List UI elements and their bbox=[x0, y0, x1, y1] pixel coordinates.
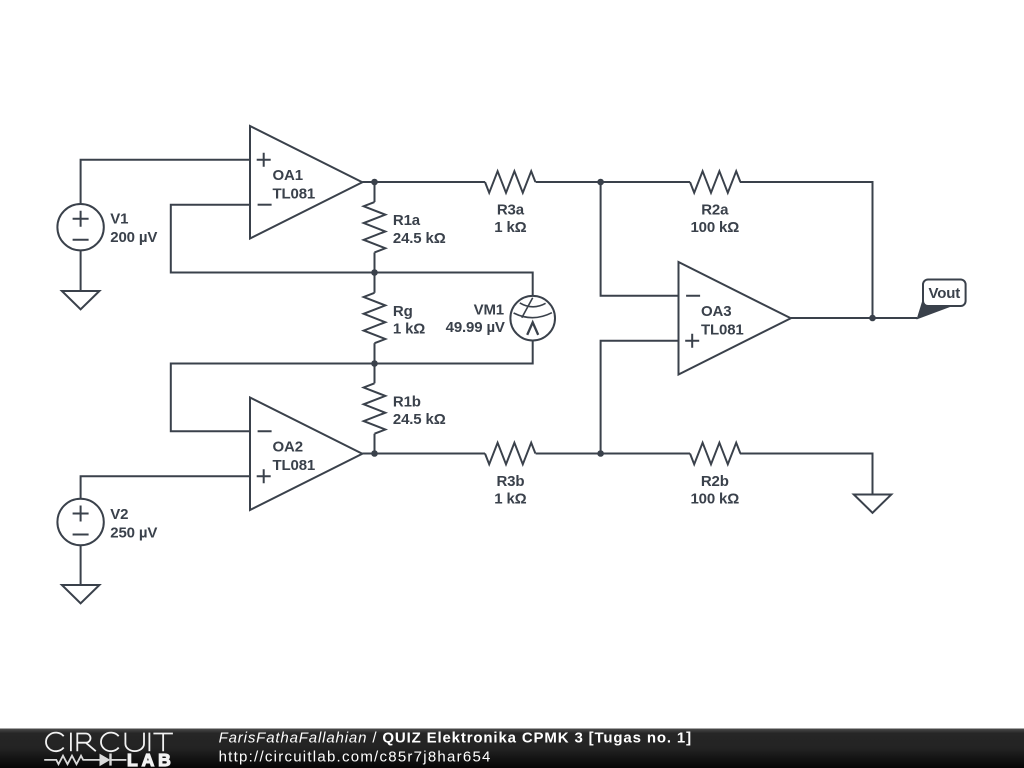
resistor R1a zigzag bbox=[364, 202, 386, 252]
wire node B to OA3 - input bbox=[601, 182, 679, 296]
svg-text:TL081: TL081 bbox=[273, 457, 316, 474]
svg-text:1 kΩ: 1 kΩ bbox=[393, 321, 425, 338]
svg-text:OA3: OA3 bbox=[701, 303, 731, 320]
wire Rg to node C bbox=[374, 343, 376, 383]
wire V1 bottom to ground bbox=[80, 250, 82, 291]
svg-text:1 kΩ: 1 kΩ bbox=[494, 219, 526, 236]
voltmeter VM1 bbox=[510, 296, 555, 341]
wire OA2 - feedback to node C and VM1 bottom bbox=[171, 341, 533, 432]
svg-text:LAB: LAB bbox=[127, 750, 175, 768]
junction dots bbox=[371, 179, 876, 457]
resistor R3a zigzag bbox=[485, 171, 535, 193]
wire OA2 output row bbox=[362, 453, 485, 455]
node OA1 out bbox=[371, 179, 378, 186]
svg-text:FarisFathaFallahian / QUIZ Ele: FarisFathaFallahian / QUIZ Elektronika C… bbox=[219, 729, 692, 746]
Vout flag bbox=[917, 292, 951, 320]
svg-text:OA2: OA2 bbox=[273, 439, 303, 456]
svg-text:VM1: VM1 bbox=[474, 302, 504, 319]
node C (Rg/R1b) bbox=[371, 360, 378, 367]
node OA2 out bbox=[371, 450, 378, 457]
wire R2a to right column down to OA3 output bbox=[740, 182, 873, 318]
CircuitLab logo: diode triangle bbox=[100, 754, 111, 767]
svg-text:200 µV: 200 µV bbox=[110, 229, 157, 246]
footer bar bbox=[0, 729, 1024, 768]
wire OA1 - feedback to node A and VM1 top bbox=[171, 205, 533, 296]
resistor R2a zigzag bbox=[690, 171, 740, 193]
node B (R3a/R2a) bbox=[597, 179, 604, 186]
svg-text:http://circuitlab.com/c85r7j8h: http://circuitlab.com/c85r7j8har654 bbox=[219, 748, 492, 765]
svg-text:OA1: OA1 bbox=[273, 167, 303, 184]
node D (R3b/R2b) bbox=[597, 450, 604, 457]
resistor Rg zigzag bbox=[364, 293, 386, 343]
voltage source V2 bbox=[57, 499, 103, 545]
svg-text:R2a: R2a bbox=[701, 202, 729, 219]
node OA3 out bbox=[869, 315, 876, 322]
svg-text:R1a: R1a bbox=[393, 212, 421, 229]
wire OA1 output row bbox=[362, 181, 485, 183]
wire R1 column top bbox=[374, 182, 376, 202]
wire R3b to node D bbox=[536, 453, 690, 455]
resistor R3b zigzag bbox=[485, 443, 535, 465]
svg-text:100 kΩ: 100 kΩ bbox=[690, 491, 739, 508]
svg-text:V2: V2 bbox=[110, 506, 128, 523]
svg-text:R2b: R2b bbox=[701, 473, 729, 490]
wire OA3 output to Vout bbox=[791, 317, 917, 319]
svg-text:1 kΩ: 1 kΩ bbox=[494, 491, 526, 508]
wire R1b to OA2 output node bbox=[374, 434, 376, 454]
svg-text:Vout: Vout bbox=[928, 285, 960, 302]
svg-text:R3a: R3a bbox=[497, 202, 525, 219]
CircuitLab logo: CIRCUIT bbox=[46, 733, 173, 752]
svg-text:R3b: R3b bbox=[496, 473, 524, 490]
svg-text:49.99 µV: 49.99 µV bbox=[446, 319, 505, 336]
op-amp OA1 bbox=[250, 126, 362, 239]
ground (V1) bbox=[62, 291, 100, 309]
ground (right, R2b) bbox=[854, 495, 892, 513]
svg-text:100 kΩ: 100 kΩ bbox=[690, 219, 739, 236]
wire V1 top to OA1 + input bbox=[81, 160, 250, 204]
wire node D to OA3 + input bbox=[601, 341, 679, 454]
wire R3a to node B bbox=[536, 181, 690, 183]
wire R1a to node A bbox=[374, 252, 376, 292]
wire R2b to right ground bbox=[740, 454, 873, 495]
node A (R1a/Rg) bbox=[371, 269, 378, 276]
resistor R2b zigzag bbox=[690, 443, 740, 465]
resistor R1b zigzag bbox=[364, 383, 386, 433]
svg-text:V1: V1 bbox=[110, 211, 128, 228]
svg-text:TL081: TL081 bbox=[273, 186, 316, 203]
voltage source V1 bbox=[57, 204, 103, 250]
svg-text:TL081: TL081 bbox=[701, 322, 744, 339]
CircuitLab logo: resistor+diode row bbox=[44, 754, 126, 766]
op-amp OA2 bbox=[250, 398, 362, 511]
op-amp OA3 bbox=[679, 262, 791, 375]
svg-text:250 µV: 250 µV bbox=[110, 524, 157, 541]
wire V2 bottom to ground bbox=[80, 545, 82, 585]
svg-text:R1b: R1b bbox=[393, 394, 421, 411]
svg-text:24.5 kΩ: 24.5 kΩ bbox=[393, 230, 446, 247]
svg-text:24.5 kΩ: 24.5 kΩ bbox=[393, 411, 446, 428]
svg-text:Rg: Rg bbox=[393, 303, 413, 320]
wire V2 top to OA2 + input bbox=[81, 476, 250, 502]
ground (V2) bbox=[62, 585, 100, 603]
